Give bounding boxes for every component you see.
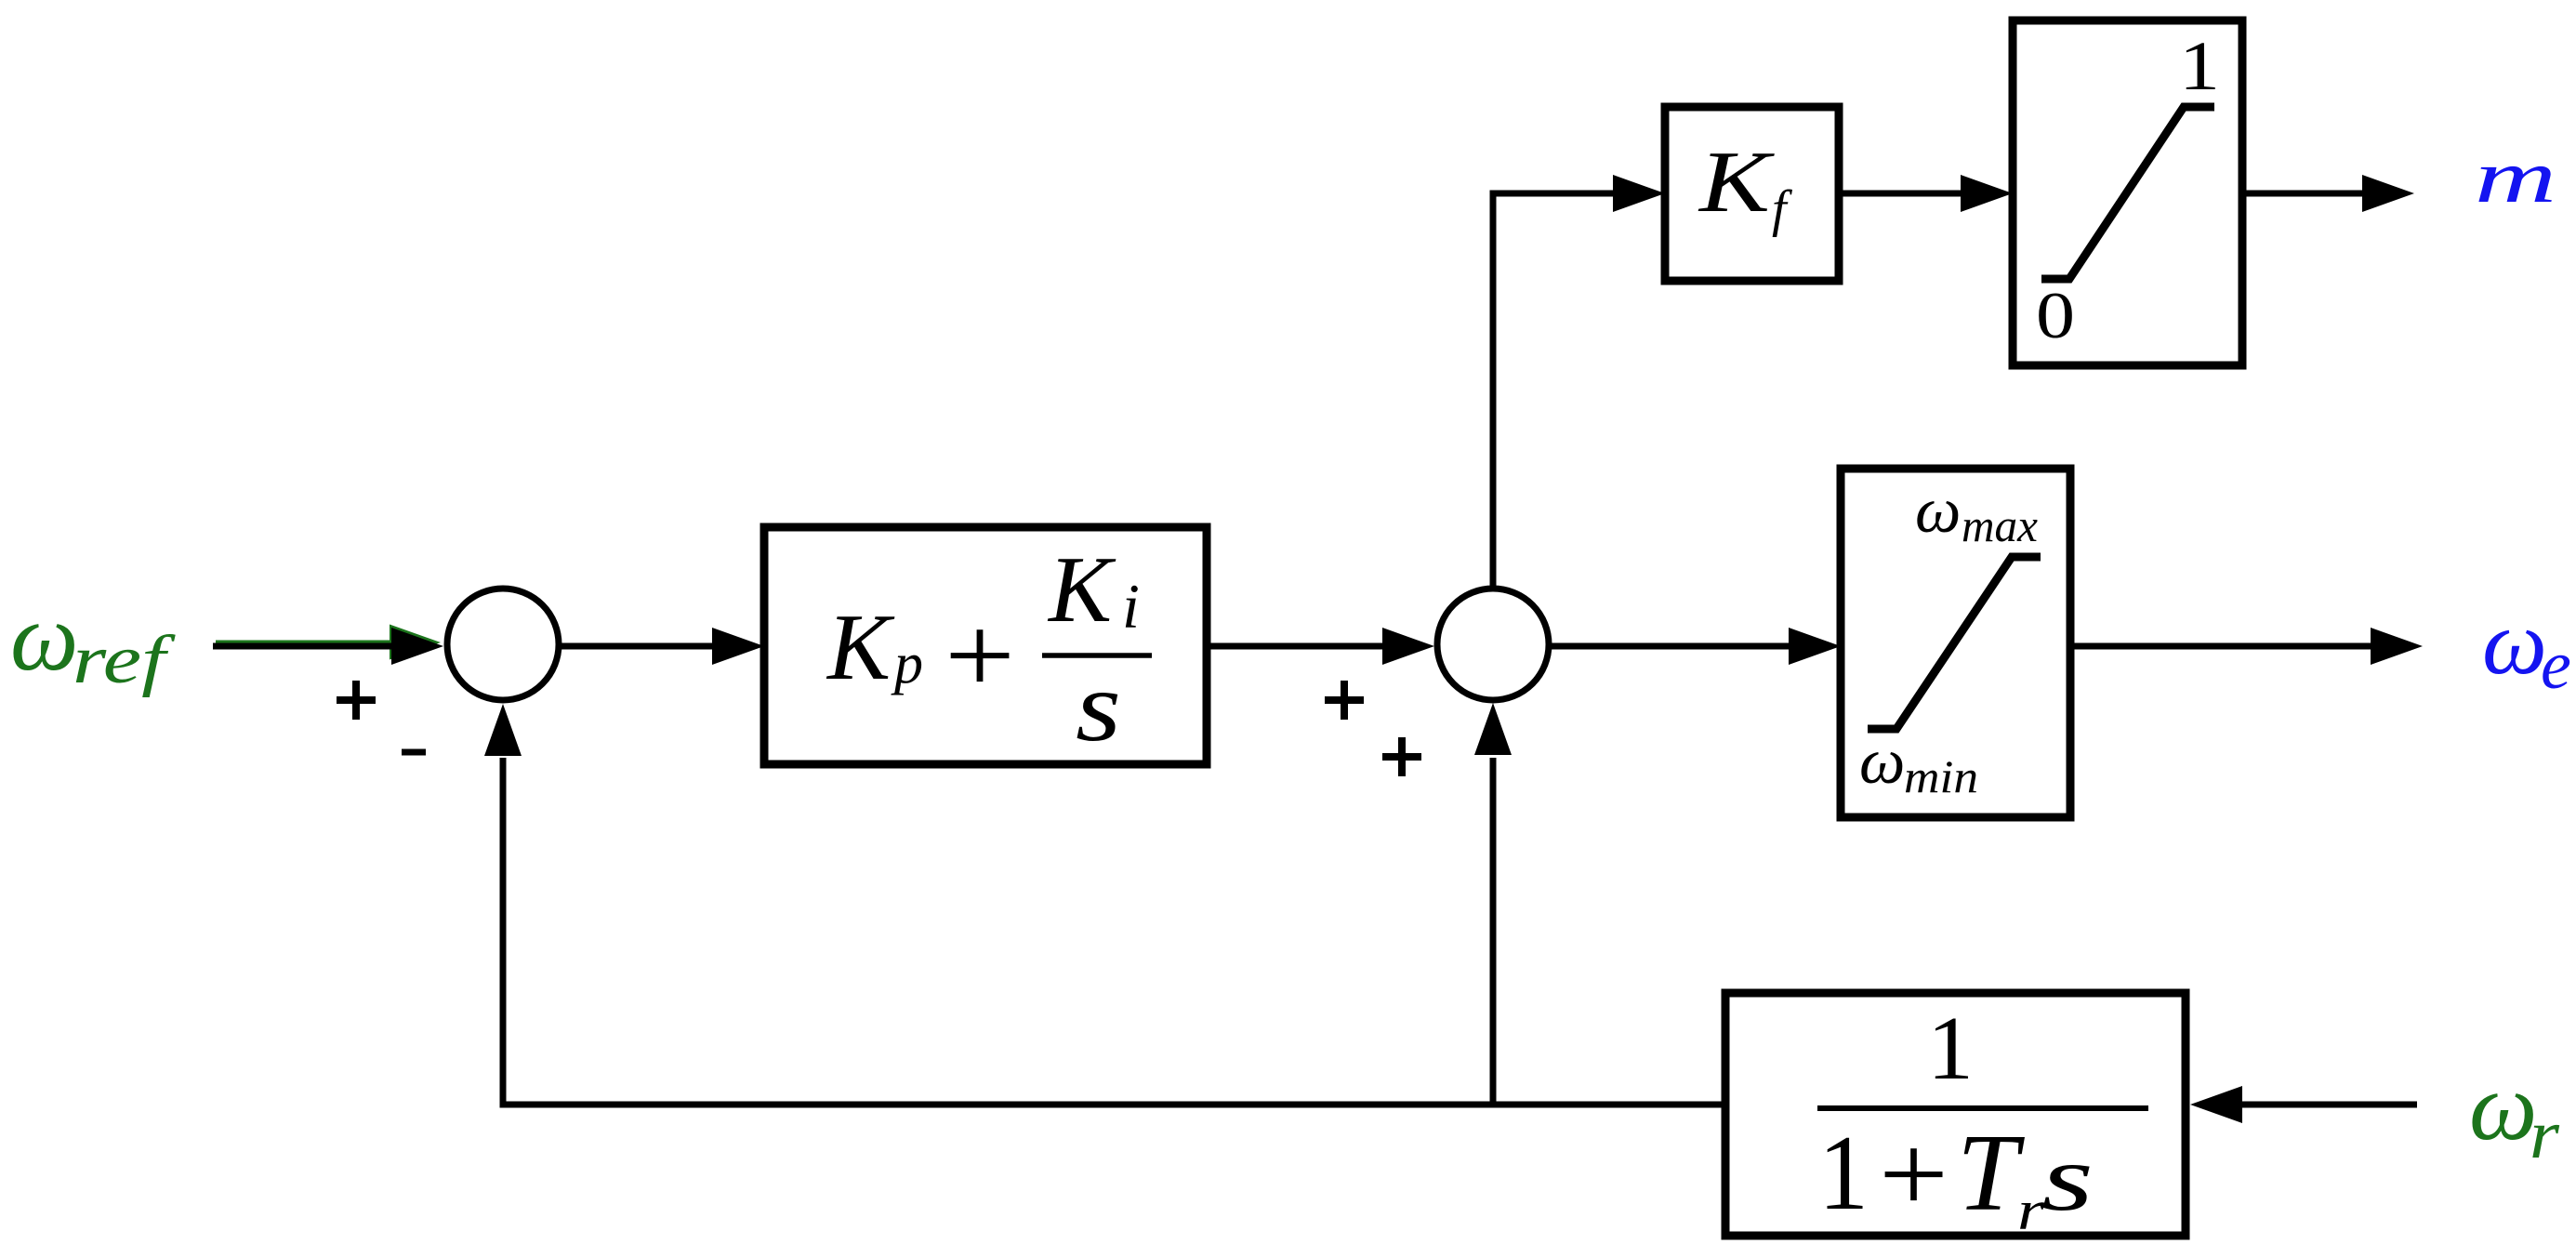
node omega_ref label <box>10 584 177 698</box>
arrow into sum1 bottom <box>484 704 522 756</box>
svg-text:1: 1 <box>1927 999 1974 1099</box>
minus sign at S1 <box>402 749 426 756</box>
feedback wire lag block to junction and sum1 <box>503 758 1725 1105</box>
svg-text:K: K <box>1047 537 1116 642</box>
svg-text:T: T <box>1957 1111 2026 1234</box>
wire PI block to sum2 <box>1207 628 1434 665</box>
wire omega_ref to sum1 (green underlay) <box>216 625 441 660</box>
Kf block <box>1665 107 1839 281</box>
svg-text:ref: ref <box>73 622 177 698</box>
wire saturation to m <box>2242 175 2414 212</box>
wire Kf to saturation 0-1 <box>1839 175 2013 212</box>
wire sum2 up to Kf branch <box>1493 193 1618 589</box>
wire S1 to PI block <box>559 628 764 665</box>
saturation block wmin..wmax <box>1841 469 2070 817</box>
svg-text:s: s <box>2041 1126 2094 1231</box>
svg-text:1: 1 <box>1818 1114 1869 1233</box>
wire saturation to omega_e <box>2070 628 2423 665</box>
svg-text:ω: ω <box>2482 592 2547 694</box>
lag block 1/(1+Tr s) <box>1725 993 2186 1236</box>
wire omega_ref to sum1 <box>213 628 443 665</box>
plus sign left of sum2 <box>1325 681 1364 720</box>
svg-text:+: + <box>1879 1112 1949 1236</box>
plus sign at S1 <box>337 681 376 720</box>
svg-text:p: p <box>891 632 923 695</box>
svg-text:K: K <box>826 595 895 700</box>
svg-text:ω: ω <box>2469 1053 2537 1160</box>
wire junction up into sum2 bottom <box>1490 758 1497 1105</box>
svg-text:min: min <box>1904 750 1978 802</box>
svg-text:ω: ω <box>1915 475 1961 547</box>
svg-text:ω: ω <box>1859 726 1905 798</box>
wire omega_r to lag block <box>2190 1086 2417 1123</box>
wire sum2 to saturation wmax <box>1549 628 1841 665</box>
svg-text:+: + <box>945 593 1015 717</box>
svg-text:ω: ω <box>10 584 78 691</box>
plus sign below sum2 <box>1382 737 1421 776</box>
node omega_r label <box>2469 1053 2560 1173</box>
saturation block 0..1 <box>2013 20 2242 365</box>
PI controller block Kp+Ki/s <box>764 527 1207 764</box>
node omega_e label <box>2482 592 2571 704</box>
summing junction S2 <box>1437 589 1549 700</box>
summing junction S1 <box>447 589 559 700</box>
svg-text:K: K <box>1698 134 1776 231</box>
svg-text:m: m <box>2475 137 2556 218</box>
svg-text:e: e <box>2541 628 2571 704</box>
svg-text:max: max <box>1962 499 2038 551</box>
arrow into sum2 bottom <box>1474 703 1512 755</box>
svg-text:0: 0 <box>2036 280 2075 352</box>
svg-text:s: s <box>1076 652 1121 762</box>
svg-text:1: 1 <box>2179 28 2220 105</box>
svg-text:r: r <box>2530 1097 2560 1173</box>
svg-text:i: i <box>1122 571 1140 642</box>
